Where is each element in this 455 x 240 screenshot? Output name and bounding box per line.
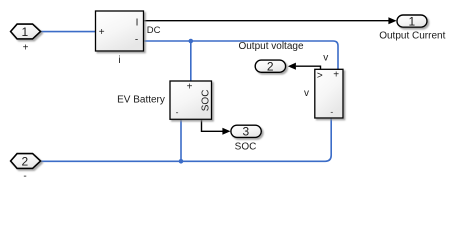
arrowhead to outport 2 (288, 63, 296, 70)
wire: junction down to battery + (190, 41, 192, 81)
wire: battery SOC output to outport 3 (202, 119, 223, 131)
svg-text:1: 1 (408, 14, 415, 28)
outport 1 Output Current (397, 15, 427, 27)
svg-text:i: i (118, 55, 120, 66)
svg-text:SOC: SOC (201, 90, 212, 112)
svg-text:Output Current: Output Current (379, 31, 445, 42)
arrowhead to outport 1 (388, 17, 396, 24)
svg-text:+: + (333, 70, 339, 81)
svg-text:3: 3 (243, 125, 250, 139)
svg-text:EV Battery: EV Battery (117, 95, 165, 106)
current sensor block i (96, 11, 144, 51)
svg-text:>: > (317, 71, 323, 82)
svg-text:Output voltage: Output voltage (238, 41, 303, 52)
svg-text:+: + (23, 42, 29, 53)
battery block EV Battery (170, 81, 212, 119)
wire: port1 to current sensor + (41, 31, 96, 33)
svg-text:+: + (99, 27, 105, 38)
junction dot B (179, 159, 184, 164)
wire: current sensor - output, right and down to voltage sensor + (144, 41, 339, 69)
svg-text:-: - (176, 107, 179, 117)
svg-text:DC: DC (147, 25, 161, 36)
svg-text:-: - (23, 171, 26, 182)
svg-text:1: 1 (21, 25, 28, 39)
wire: battery - down to bottom bus (180, 119, 182, 161)
svg-text:SOC: SOC (235, 141, 257, 152)
svg-text:v: v (304, 88, 309, 99)
svg-text:I: I (136, 18, 139, 29)
input port 2 (11, 154, 41, 169)
arrowhead to outport 3 (222, 128, 230, 135)
svg-text:-: - (135, 35, 138, 46)
wire: current sensor I output to outport 1 (144, 20, 390, 22)
junction dot A (189, 39, 194, 44)
svg-text:2: 2 (21, 154, 28, 168)
wire: port2 bottom bus to voltage sensor - (41, 118, 332, 161)
svg-text:v: v (323, 52, 328, 63)
voltage sensor block v (315, 69, 343, 118)
wire: voltage sensor v output to outport 2 (296, 66, 321, 69)
svg-text:2: 2 (267, 60, 274, 74)
outport 3 SOC (231, 125, 261, 137)
svg-text:+: + (187, 82, 193, 93)
input port 1 (11, 24, 41, 39)
outport 2 Output voltage (255, 60, 285, 72)
svg-text:-: - (330, 107, 333, 117)
